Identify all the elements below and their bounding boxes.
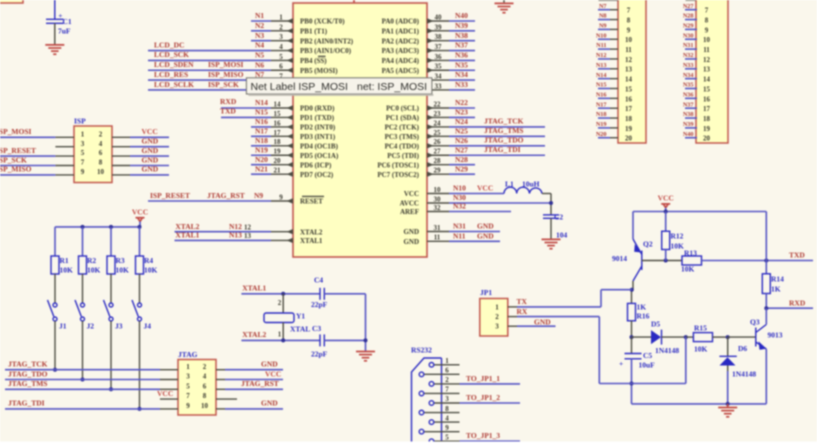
RS232 pin 3 — [434, 402, 459, 404]
wire (R3 to J3) — [110, 274, 112, 303]
svg-text:JTAG_TDO: JTAG_TDO — [484, 135, 524, 144]
wire net N35 — [449, 69, 475, 71]
wire net N40 — [449, 20, 475, 22]
wire (C1 bottom lead) — [54, 23, 56, 45]
svg-text:N1: N1 — [255, 11, 264, 20]
svg-text:2: 2 — [445, 376, 449, 384]
svg-text:N5: N5 — [255, 51, 264, 60]
switch J1 — [53, 303, 57, 307]
wire net GND — [225, 408, 283, 410]
svg-text:N13: N13 — [596, 62, 607, 69]
svg-text:ISP_RESET: ISP_RESET — [150, 191, 190, 200]
svg-text:N37: N37 — [683, 101, 694, 108]
connector P1 pin 16 net N16 — [610, 97, 618, 99]
connector P2 pin 19 net N39 — [696, 127, 697, 129]
connector P1 body — [618, 0, 646, 143]
wire net N22 — [449, 107, 475, 109]
svg-text:GND: GND — [403, 228, 419, 236]
svg-text:8: 8 — [203, 392, 207, 400]
svg-text:4: 4 — [279, 43, 283, 51]
svg-text:PA5 (ADC5): PA5 (ADC5) — [382, 67, 420, 75]
svg-text:7: 7 — [445, 386, 449, 394]
svg-text:LCD_SCK: LCD_SCK — [154, 50, 189, 59]
svg-text:Net Label ISP_MOSI: Net Label ISP_MOSI — [251, 81, 348, 93]
svg-text:Q3: Q3 — [750, 317, 760, 326]
svg-text:PB0 (XCK/T0): PB0 (XCK/T0) — [300, 18, 345, 26]
header JP1 body — [480, 299, 508, 337]
wire net JTAG_TCK — [5, 369, 160, 371]
svg-text:VCC: VCC — [132, 208, 148, 217]
svg-text:VCC: VCC — [157, 389, 173, 398]
svg-text:N28: N28 — [683, 13, 694, 20]
svg-text:R4: R4 — [144, 256, 153, 265]
svg-text:19: 19 — [274, 148, 282, 156]
svg-text:N10: N10 — [453, 184, 466, 193]
svg-text:PB3 (AIN1/OC0): PB3 (AIN1/OC0) — [300, 47, 352, 55]
wire (C2 to ground) — [550, 218, 552, 239]
svg-text:L1: L1 — [505, 179, 514, 188]
svg-text:N24: N24 — [455, 117, 468, 126]
svg-text:6: 6 — [279, 63, 283, 71]
svg-text:N9: N9 — [599, 23, 607, 30]
svg-text:N10: N10 — [596, 32, 607, 39]
svg-text:N30: N30 — [683, 32, 694, 39]
svg-text:11: 11 — [434, 234, 441, 242]
svg-text:9014: 9014 — [612, 254, 627, 263]
svg-text:2: 2 — [495, 313, 499, 321]
svg-text:12: 12 — [703, 56, 711, 64]
wire net JTAG_TDO — [5, 379, 160, 381]
switch J4 — [138, 303, 142, 307]
svg-text:10K: 10K — [87, 266, 101, 275]
wire net N3 — [251, 40, 271, 42]
svg-text:XTAL2: XTAL2 — [242, 330, 266, 339]
header JTAG body — [178, 360, 216, 416]
svg-text:VCC: VCC — [658, 194, 674, 203]
svg-text:15: 15 — [274, 110, 282, 118]
svg-text:N4: N4 — [255, 41, 264, 50]
resistor R12 10K — [665, 212, 667, 232]
svg-text:17: 17 — [625, 105, 633, 113]
svg-text:PA3 (ADC3): PA3 (ADC3) — [382, 47, 420, 55]
wire net TO_JP1_3 — [460, 440, 521, 442]
resistor R16 1K — [628, 303, 636, 320]
wire (C1 top lead) — [54, 0, 56, 19]
svg-text:18: 18 — [274, 138, 282, 146]
svg-text:7: 7 — [81, 159, 85, 167]
svg-text:JTAG: JTAG — [178, 350, 198, 359]
page edge band — [0, 442, 817, 448]
svg-text:N9: N9 — [254, 191, 263, 200]
svg-text:23: 23 — [434, 110, 442, 118]
partial component fragment top-left corner — [0, 0, 23, 3]
resistor R4 10K — [136, 256, 144, 274]
wire net AREF — [449, 211, 511, 213]
svg-text:13: 13 — [703, 66, 711, 74]
wire net N27 — [449, 154, 545, 156]
ground (crystal) — [356, 351, 375, 353]
svg-text:6: 6 — [445, 367, 449, 375]
svg-text:10: 10 — [97, 168, 105, 176]
svg-text:N29: N29 — [683, 23, 694, 30]
diode D6 1N4148 — [727, 337, 729, 356]
svg-text:N3: N3 — [255, 31, 264, 40]
svg-text:TO_JP1_3: TO_JP1_3 — [466, 431, 500, 440]
svg-text:TO_JP1_2: TO_JP1_2 — [466, 393, 500, 402]
wire net TXD — [702, 260, 814, 262]
svg-text:J2: J2 — [87, 322, 95, 331]
svg-text:32: 32 — [434, 204, 442, 212]
svg-text:GND: GND — [477, 231, 494, 240]
svg-text:N31: N31 — [453, 222, 466, 231]
svg-text:JTAG_TCK: JTAG_TCK — [8, 360, 48, 369]
svg-text:39: 39 — [435, 23, 443, 31]
svg-text:9: 9 — [627, 26, 631, 34]
svg-text:17: 17 — [703, 105, 711, 113]
connector P1 pin 9 net N9 — [610, 28, 618, 30]
svg-text:ISP_RESET: ISP_RESET — [0, 146, 36, 155]
svg-text:N31: N31 — [683, 42, 694, 49]
wire (junction to Q3 base) — [728, 336, 756, 338]
svg-text:GND: GND — [142, 155, 159, 164]
svg-text:26: 26 — [434, 138, 442, 146]
svg-text:LCD_DC: LCD_DC — [154, 40, 184, 49]
wire net N38 — [449, 40, 475, 42]
svg-text:N27: N27 — [683, 3, 694, 10]
svg-text:PD4 (OC1B): PD4 (OC1B) — [300, 142, 339, 150]
tooltip Net Label ISP_MOSI — [246, 78, 432, 94]
wire net N37 — [449, 50, 475, 52]
svg-text:ISP_MISO: ISP_MISO — [0, 165, 32, 174]
connector P1 pin 14 net N14 — [610, 78, 618, 80]
svg-text:J1: J1 — [59, 322, 67, 331]
connector P2 pin 17 net N37 — [696, 107, 697, 109]
wire net TO_JP1_2 — [460, 402, 521, 404]
svg-text:PA0 (ADC0): PA0 (ADC0) — [382, 18, 420, 26]
svg-text:2: 2 — [99, 130, 103, 138]
wire (lower rail 1) — [599, 383, 686, 385]
svg-text:GND: GND — [534, 317, 551, 326]
svg-text:R12: R12 — [671, 232, 684, 241]
svg-text:1: 1 — [278, 331, 282, 339]
wire net N4 — [148, 50, 271, 52]
svg-text:36: 36 — [435, 53, 443, 61]
wire (C5 down to rails) — [631, 359, 633, 404]
svg-text:8: 8 — [99, 159, 103, 167]
svg-text:10: 10 — [201, 402, 209, 410]
svg-text:33: 33 — [435, 82, 443, 90]
svg-text:22: 22 — [434, 100, 442, 108]
svg-text:GND: GND — [403, 238, 419, 246]
svg-text:ISP_SCK: ISP_SCK — [208, 80, 239, 89]
svg-text:10: 10 — [703, 36, 711, 44]
connector P1 pin 10 net N10 — [610, 38, 618, 40]
svg-text:TXD: TXD — [220, 106, 236, 115]
svg-text:N12: N12 — [596, 52, 607, 59]
wire net N25 — [449, 135, 545, 137]
wire (rail to R3) — [110, 227, 112, 256]
svg-text:PA2 (ADC2): PA2 (ADC2) — [382, 37, 420, 45]
svg-text:RXD: RXD — [789, 298, 806, 307]
svg-text:R2: R2 — [87, 256, 96, 265]
svg-text:N27: N27 — [455, 145, 468, 154]
wire (Q3 emitter down) — [765, 349, 767, 404]
wire (L1 to C2) — [542, 193, 551, 195]
svg-text:N35: N35 — [455, 60, 468, 69]
svg-text:3: 3 — [81, 140, 85, 148]
svg-text:4: 4 — [445, 414, 449, 422]
svg-text:22pF: 22pF — [311, 300, 328, 309]
svg-text:C3: C3 — [312, 324, 321, 333]
svg-text:10K: 10K — [671, 242, 685, 251]
svg-text:N26: N26 — [455, 136, 468, 145]
wire net ISP_RESET — [0, 155, 55, 157]
svg-text:11: 11 — [625, 46, 632, 54]
wire net N1 — [251, 20, 271, 22]
wire net RX — [517, 316, 599, 318]
svg-text:16: 16 — [703, 95, 711, 103]
svg-text:14: 14 — [703, 76, 711, 84]
connector P1 pin 11 net N11 — [610, 48, 618, 50]
svg-text:N37: N37 — [455, 41, 468, 50]
wire net XTAL1 (crystal top) — [241, 293, 320, 295]
svg-text:ISP: ISP — [74, 117, 86, 126]
svg-text:PD6 (ICP): PD6 (ICP) — [300, 161, 332, 169]
connector P1 pin 15 net N15 — [610, 88, 618, 90]
wire net N23 — [449, 116, 475, 118]
connector P2 pin 16 net N36 — [696, 97, 697, 99]
svg-text:10K: 10K — [144, 266, 158, 275]
svg-text:N8: N8 — [599, 13, 607, 20]
wire net N26 — [449, 145, 545, 147]
wire net ISP_RESET/JTAG_RST — [148, 200, 271, 202]
svg-text:8: 8 — [445, 405, 449, 413]
svg-text:N16: N16 — [596, 91, 607, 98]
svg-text:RX: RX — [517, 307, 528, 316]
svg-text:JTAG_TCK: JTAG_TCK — [484, 117, 524, 126]
svg-text:XTAL1: XTAL1 — [300, 237, 323, 245]
svg-text:JP1: JP1 — [480, 288, 492, 297]
svg-text:7uF: 7uF — [58, 27, 71, 36]
svg-text:TO_JP1_1: TO_JP1_1 — [466, 374, 500, 383]
wire net N15 — [221, 116, 271, 118]
capacitor C2 104 — [543, 214, 559, 216]
wire net XTAL2 — [175, 231, 272, 233]
svg-text:104: 104 — [556, 230, 568, 239]
connector P2 pin 20 net N40 — [696, 137, 697, 139]
svg-text:RESET: RESET — [300, 198, 323, 206]
wire (J1 down) — [54, 321, 56, 370]
wire net N34 — [449, 79, 475, 81]
wire (R4 to J4) — [139, 274, 141, 303]
wire (J4 down) — [139, 321, 141, 409]
RS232 pin 4 — [434, 421, 459, 423]
switch J2 — [81, 303, 85, 307]
svg-text:R15: R15 — [694, 324, 707, 333]
connector P2 pin 13 net N33 — [696, 68, 697, 70]
wire (R2 to J2) — [82, 274, 84, 303]
svg-text:10K: 10K — [681, 264, 695, 273]
svg-text:5: 5 — [445, 433, 449, 441]
wire net XTAL2 (crystal bottom) — [241, 339, 320, 341]
svg-text:10: 10 — [434, 186, 442, 194]
svg-text:N38: N38 — [683, 111, 694, 118]
wire (rail to R2) — [82, 227, 84, 256]
svg-text:Y1: Y1 — [296, 312, 305, 321]
wire net VCC — [225, 379, 283, 381]
svg-text:11: 11 — [703, 46, 710, 54]
wire (R16 to D5 junction) — [631, 321, 633, 337]
wire net N19 — [251, 154, 271, 156]
svg-text:N20: N20 — [255, 155, 268, 164]
svg-text:9013: 9013 — [768, 331, 783, 340]
connector P1 pin 6 row (cut) — [599, 0, 619, 1]
svg-text:AREF: AREF — [400, 208, 419, 216]
svg-text:PD2 (INT0): PD2 (INT0) — [300, 124, 336, 132]
svg-text:24: 24 — [434, 119, 442, 127]
wire net N7 — [148, 79, 271, 81]
svg-text:JTAG_RST: JTAG_RST — [207, 191, 245, 200]
wire net JTAG_TMS — [5, 388, 160, 390]
svg-text:N25: N25 — [455, 126, 468, 135]
svg-text:VCC: VCC — [265, 369, 281, 378]
svg-text:LCD_RES: LCD_RES — [154, 70, 188, 79]
resistor R1 10K — [51, 256, 59, 274]
svg-text:17: 17 — [274, 129, 282, 137]
svg-text:D5: D5 — [651, 320, 660, 329]
wire net N2 — [251, 30, 271, 32]
wire (rail to R1) — [54, 227, 56, 256]
wire net N6 — [148, 69, 271, 71]
svg-text:N22: N22 — [455, 98, 468, 107]
svg-text:ISP_MOSI: ISP_MOSI — [0, 127, 32, 136]
svg-text:N36: N36 — [455, 51, 468, 60]
ground (top center) — [495, 2, 514, 4]
svg-text:21: 21 — [274, 167, 282, 175]
svg-text:3: 3 — [279, 33, 283, 41]
svg-text:N19: N19 — [255, 145, 268, 154]
svg-text:N12: N12 — [229, 222, 242, 231]
ground (below C1) — [45, 44, 64, 46]
wire net GND — [225, 369, 283, 371]
svg-text:R1: R1 — [60, 256, 69, 265]
wire (C4 to ground rail) — [324, 293, 365, 295]
svg-text:10uH: 10uH — [522, 179, 540, 188]
crystal Y1 XTAL — [264, 313, 294, 323]
resistor R14 1K — [762, 274, 770, 294]
ground (transistor circuit) — [727, 404, 729, 408]
wire (J3 down) — [110, 321, 112, 389]
svg-text:N39: N39 — [683, 121, 694, 128]
wire net XTAL1 — [175, 239, 272, 241]
wire net N39 — [449, 30, 475, 32]
svg-text:5: 5 — [81, 149, 85, 157]
capacitor C3 22pF — [319, 334, 321, 346]
resistor R3 10K — [107, 256, 115, 274]
svg-text:40: 40 — [435, 13, 443, 21]
svg-text:JTAG_TDI: JTAG_TDI — [8, 399, 45, 408]
svg-text:PD3 (INT1): PD3 (INT1) — [300, 133, 336, 141]
wire net N16 — [251, 126, 271, 128]
svg-text:N15: N15 — [596, 82, 607, 89]
svg-text:JTAG_TDI: JTAG_TDI — [484, 145, 521, 154]
svg-text:12: 12 — [244, 223, 252, 231]
connector P2 pin 10 net N30 — [696, 38, 697, 40]
svg-text:9: 9 — [279, 193, 283, 201]
wire net TO_JP1_1 — [460, 383, 521, 385]
svg-text:C5: C5 — [643, 351, 652, 360]
connector P2 pin 12 net N32 — [696, 58, 697, 60]
svg-text:RXD: RXD — [220, 97, 237, 106]
svg-text:16: 16 — [625, 95, 633, 103]
svg-text:3: 3 — [445, 395, 449, 403]
svg-text:N17: N17 — [255, 126, 268, 135]
svg-text:10K: 10K — [60, 266, 74, 275]
RS232 pin 9 — [424, 431, 459, 433]
svg-text:4: 4 — [99, 140, 103, 148]
svg-text:JTAG_TMS: JTAG_TMS — [484, 126, 523, 135]
svg-text:2: 2 — [279, 23, 283, 31]
svg-text:PC3 (TMS): PC3 (TMS) — [385, 133, 420, 141]
svg-text:GND: GND — [261, 360, 278, 369]
svg-text:1: 1 — [186, 363, 190, 371]
svg-text:29: 29 — [434, 167, 442, 175]
svg-text:15: 15 — [703, 85, 711, 93]
svg-text:35: 35 — [435, 63, 443, 71]
wire net GND — [130, 165, 169, 167]
connector P1 pin 18 net N18 — [610, 117, 618, 119]
svg-text:8: 8 — [705, 16, 709, 24]
op-amp-style IC U2 ATmega16 body — [293, 3, 427, 257]
svg-text:N19: N19 — [596, 121, 607, 128]
svg-text:PC5 (TDI): PC5 (TDI) — [387, 152, 419, 160]
wire net N24 — [449, 126, 545, 128]
svg-text:N16: N16 — [255, 117, 268, 126]
svg-text:PB4 (SS): PB4 (SS) — [300, 57, 327, 65]
svg-text:18: 18 — [625, 115, 633, 123]
svg-text:2: 2 — [203, 363, 207, 371]
connector P2 pin 9 net N29 — [696, 28, 697, 30]
wire net N8 — [148, 89, 271, 91]
connector P2 pin 6 row (cut) — [686, 0, 697, 1]
connector P2 pin 18 net N38 — [696, 117, 697, 119]
svg-text:8: 8 — [627, 16, 631, 24]
RS232 pin 1 — [434, 364, 459, 366]
wire net RXD — [766, 307, 813, 309]
svg-text:PC1 (SDA): PC1 (SDA) — [386, 114, 420, 122]
svg-text:34: 34 — [435, 73, 443, 81]
svg-text:1K: 1K — [637, 303, 647, 312]
switch J3 — [109, 303, 113, 307]
svg-text:net: ISP_MOSI: net: ISP_MOSI — [357, 81, 427, 93]
svg-text:4: 4 — [203, 373, 207, 381]
svg-text:C4: C4 — [314, 275, 323, 284]
svg-text:1: 1 — [81, 130, 85, 138]
svg-text:N11: N11 — [596, 42, 606, 49]
RS232 pin 2 — [434, 383, 459, 385]
svg-text:25: 25 — [434, 129, 442, 137]
wire net ISP_MISO — [0, 174, 55, 176]
wire (rail to R4) — [139, 227, 141, 256]
svg-text:N14: N14 — [255, 98, 268, 107]
wire net N18 — [251, 145, 271, 147]
connector P2 body — [696, 0, 728, 143]
wire net ISP_SCK — [0, 165, 55, 167]
RS232 pin 6 — [424, 373, 459, 375]
svg-text:N36: N36 — [683, 91, 694, 98]
wire net TX (into circuit) — [600, 290, 602, 307]
svg-text:TXD: TXD — [789, 251, 805, 260]
